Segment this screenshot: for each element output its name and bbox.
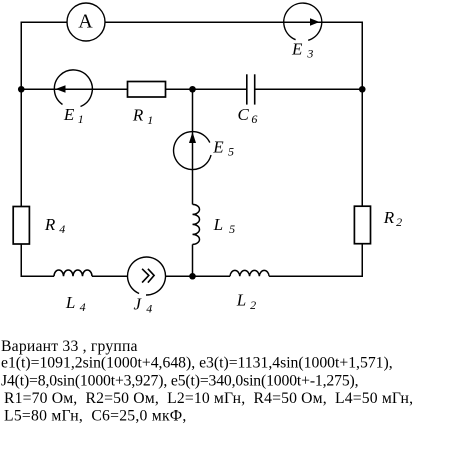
current source J4 chevron 1 [142, 269, 149, 283]
node junction dot left (E1 row) [18, 86, 25, 93]
inductor L5 [193, 204, 200, 244]
resistor R1 [128, 82, 166, 98]
node junction dot B (R1/C6/E5) [189, 86, 196, 93]
wire node B to C6 [193, 88, 247, 90]
source E1 circle [54, 70, 92, 107]
capacitor C6 left plate [246, 74, 248, 104]
node junction dot right (C6 row) [359, 86, 366, 93]
wire bottom L4 to J4 [92, 275, 128, 277]
svg-text:L5=80 мГн, C6=25,0 мкФ,: L5=80 мГн, C6=25,0 мкФ, [4, 408, 187, 425]
wire left vertical lower (R4 to bottom corner) [21, 244, 54, 276]
wire top-right segment [105, 22, 362, 89]
current source J4 circle [128, 257, 166, 295]
source E5 circle [174, 132, 211, 170]
svg-text:J4(t)=8,0sin(1000t+3,927), e5(: J4(t)=8,0sin(1000t+3,927), e5(t)=340,0si… [1, 372, 358, 389]
wire J4 to bottom node to L2 [166, 275, 231, 277]
inductor L4 [54, 270, 92, 276]
resistor R4 [13, 207, 29, 245]
svg-text:e1(t)=1091,2sin(1000t+4,648),: e1(t)=1091,2sin(1000t+4,648), e3(t)=1131… [1, 355, 393, 372]
wire top-left segment [21, 22, 67, 89]
node junction dot bottom (L5 bottom) [189, 273, 196, 280]
resistor R2 [354, 206, 370, 244]
svg-text:R1=70 Ом, R2=50 Ом, L2=10 мГ: R1=70 Ом, R2=50 Ом, L2=10 мГн, R4=50 Ом,… [4, 390, 413, 407]
source E5 arrow [189, 132, 196, 143]
wire C6 to right vertical [255, 88, 363, 90]
capacitor C6 right plate [254, 74, 256, 104]
wire left vertical upper (node A to R4) [20, 89, 22, 206]
svg-text:А: А [78, 11, 93, 33]
wire right vertical middle (C6 node to R2) [361, 89, 363, 206]
text block: variant description [1, 338, 413, 425]
wire R1 to node B [166, 88, 193, 90]
wire L5 to bottom node [192, 244, 194, 276]
source E3 arrow [310, 18, 320, 26]
source E3 circle [284, 3, 322, 40]
wire middle vertical (node B through E5 to L5) [192, 89, 194, 204]
svg-text:Вариант 33 , группа: Вариант 33 , группа [1, 338, 138, 355]
current source J4 chevron 2 [148, 269, 154, 283]
source E1 arrow [56, 85, 66, 93]
wire right vertical lower (R2 to bottom corner) [269, 244, 362, 276]
ammeter A1 circle [67, 3, 105, 41]
wire middle row left (through E1 to R1) [21, 88, 127, 90]
inductor L2 [230, 270, 269, 276]
